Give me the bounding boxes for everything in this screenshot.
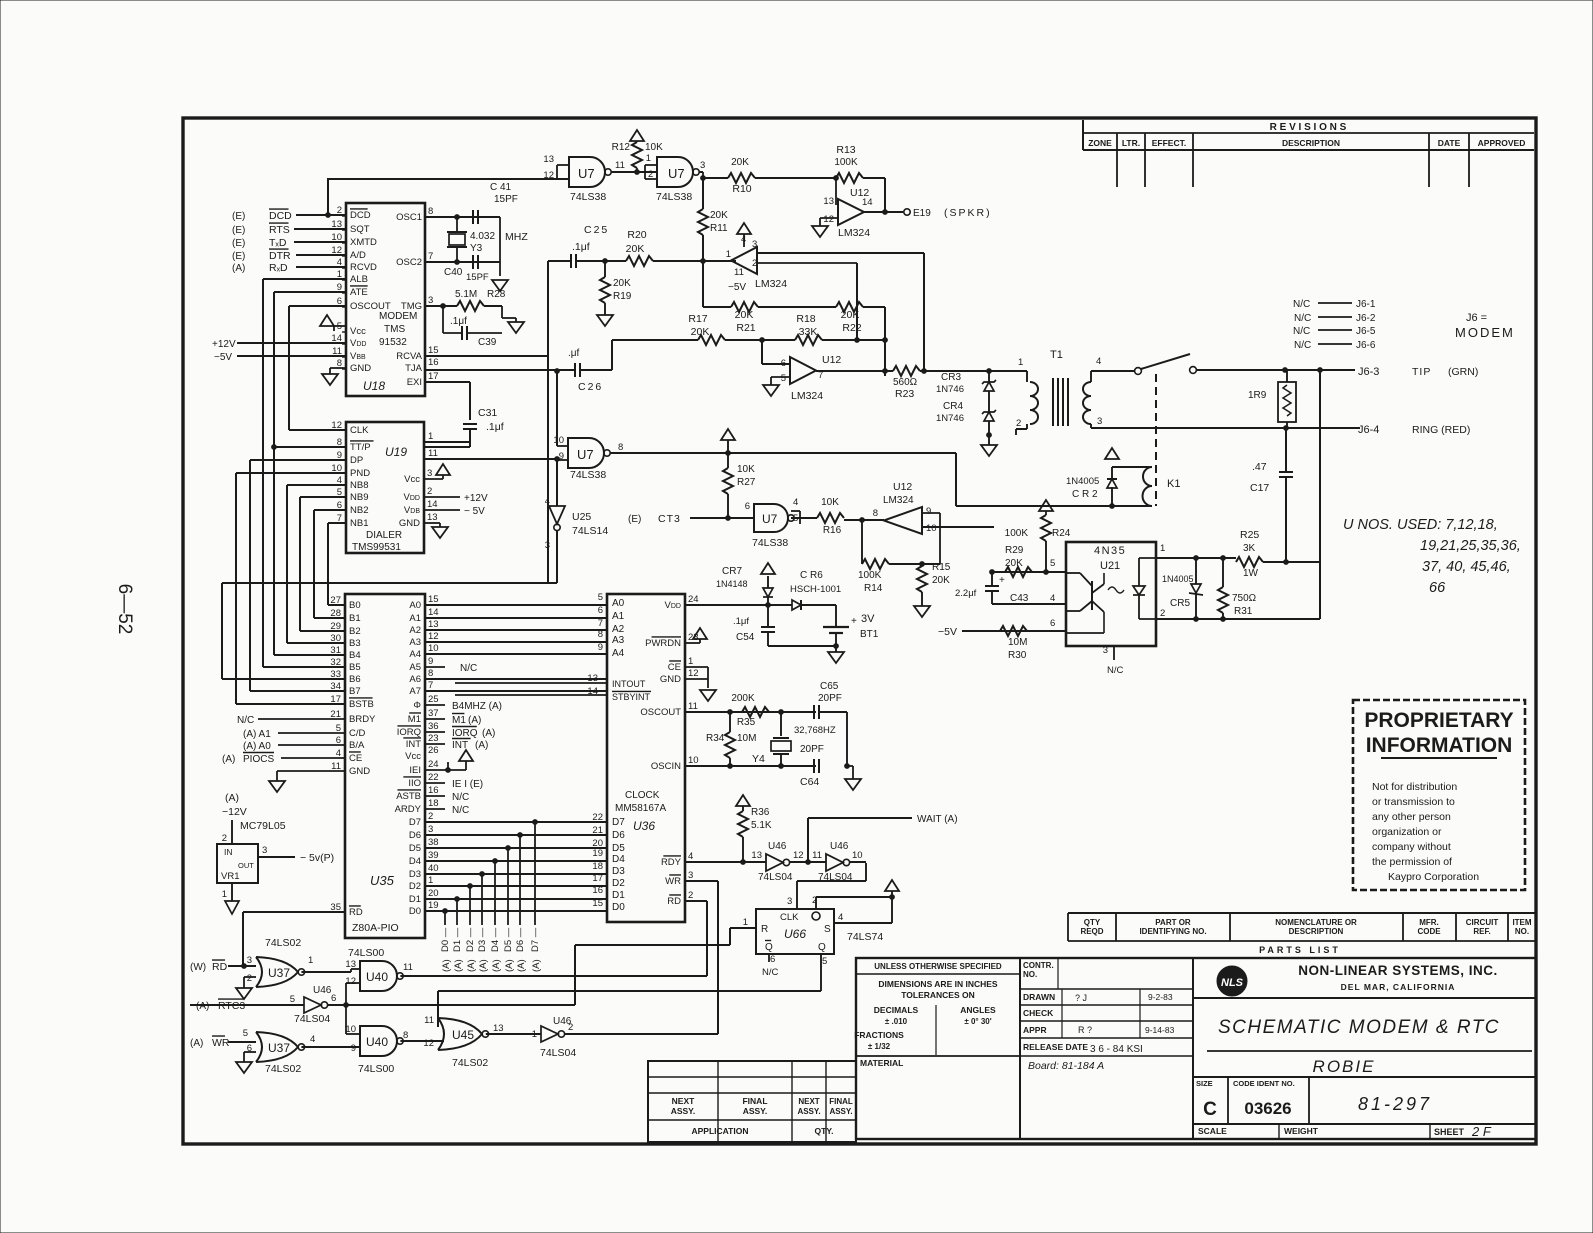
- svg-text:−5V: −5V: [214, 352, 232, 363]
- svg-text:R13: R13: [836, 144, 855, 156]
- svg-text:(A): (A): [475, 740, 488, 751]
- U19 pin1 wire from C31: [424, 442, 470, 447]
- svg-text:R29: R29: [1005, 545, 1024, 556]
- svg-text:MC79L05: MC79L05: [240, 820, 286, 832]
- U19 GND ground: [424, 523, 448, 538]
- svg-text:NB2: NB2: [350, 505, 368, 516]
- svg-text:U37: U37: [268, 1041, 290, 1055]
- capacitor C31 .1uf: [425, 407, 504, 447]
- svg-text:9: 9: [351, 1043, 356, 1054]
- svg-text:28: 28: [330, 608, 341, 619]
- svg-text:1N746: 1N746: [936, 413, 964, 424]
- svg-text:B/A: B/A: [349, 740, 365, 751]
- inverter U46c 74LS04: [190, 985, 346, 1025]
- inverter U46a 74LS04: [751, 841, 826, 883]
- wire TJA to C26: [425, 369, 575, 371]
- svg-text:15: 15: [428, 594, 439, 605]
- svg-text:(A): (A): [482, 728, 495, 739]
- NAND U7a 74LS38: [328, 154, 657, 203]
- svg-text:INT: INT: [406, 739, 422, 750]
- svg-text:.1μf: .1μf: [486, 421, 504, 433]
- svg-text:(A): (A): [466, 959, 477, 972]
- svg-text:U66: U66: [784, 927, 806, 941]
- svg-text:3: 3: [428, 295, 433, 306]
- svg-text:D3: D3: [612, 866, 625, 877]
- svg-text:NB8: NB8: [350, 480, 368, 491]
- svg-text:3: 3: [247, 955, 252, 966]
- svg-text:14: 14: [428, 607, 439, 618]
- svg-text:E19: E19: [913, 208, 931, 219]
- svg-text:3: 3: [752, 239, 757, 250]
- svg-text:1: 1: [726, 249, 731, 260]
- svg-text:C40: C40: [444, 267, 463, 278]
- svg-text:J6-2: J6-2: [1356, 313, 1376, 324]
- IC U19 TMS99531 dialer: [331, 420, 437, 553]
- svg-text:QTY: QTY: [1084, 918, 1101, 927]
- svg-text:REF.: REF.: [1473, 927, 1490, 936]
- svg-text:20PF: 20PF: [818, 693, 842, 704]
- svg-text:R28: R28: [487, 289, 506, 300]
- svg-text:R11: R11: [710, 223, 728, 234]
- svg-text:1: 1: [688, 656, 693, 667]
- dashed relay link: [1155, 374, 1157, 506]
- svg-text:14: 14: [427, 499, 438, 510]
- svg-text:DIALER: DIALER: [366, 530, 402, 541]
- svg-text:R36: R36: [751, 807, 770, 818]
- svg-text:5.1K: 5.1K: [751, 820, 772, 831]
- svg-text:20K: 20K: [613, 278, 631, 289]
- svg-text:D4: D4: [409, 856, 421, 867]
- svg-text:(A): (A): [190, 1038, 203, 1049]
- svg-text:ANGLES: ANGLES: [960, 1005, 996, 1015]
- U21 drive network R24 R29 C43 R30: [938, 500, 1071, 661]
- svg-text:C54: C54: [736, 632, 755, 643]
- svg-text:9-14-83: 9-14-83: [1145, 1025, 1175, 1035]
- NAND U40b 74LS00: [345, 1005, 444, 1075]
- svg-text:10: 10: [553, 435, 564, 446]
- svg-text:B6: B6: [349, 674, 361, 685]
- IC U18 TMS99532 modem: [331, 203, 438, 396]
- svg-text:20K: 20K: [735, 309, 754, 321]
- svg-text:N/C: N/C: [460, 663, 477, 674]
- svg-text:B7: B7: [349, 686, 361, 697]
- svg-text:11: 11: [403, 962, 413, 973]
- svg-text:5: 5: [781, 373, 786, 384]
- svg-text:Not for distribution: Not for distribution: [1372, 781, 1457, 793]
- svg-text:B0: B0: [349, 600, 361, 611]
- svg-text:CR3: CR3: [941, 372, 961, 383]
- svg-text:MFR.: MFR.: [1419, 918, 1439, 927]
- svg-text:R23: R23: [895, 388, 914, 400]
- svg-text:company without: company without: [1372, 841, 1451, 853]
- svg-text:DRAWN: DRAWN: [1023, 992, 1055, 1002]
- svg-text:R19: R19: [613, 291, 632, 302]
- drawing frame border: [183, 118, 1536, 1144]
- svg-text:20PF: 20PF: [800, 744, 824, 755]
- svg-text:74LS38: 74LS38: [570, 469, 606, 481]
- svg-text:APPR: APPR: [1023, 1025, 1047, 1035]
- svg-text:7: 7: [598, 618, 603, 629]
- svg-text:A1: A1: [612, 611, 625, 622]
- svg-text:32: 32: [330, 657, 341, 668]
- svg-text:− 5V: − 5V: [464, 506, 485, 517]
- svg-text:4: 4: [310, 1034, 315, 1045]
- svg-text:R30: R30: [1008, 650, 1027, 661]
- op-amp U12d with R14 R15 R16: [817, 481, 994, 617]
- svg-text:EXI: EXI: [407, 377, 422, 388]
- svg-text:GND: GND: [350, 363, 371, 374]
- relay K1 with CR2: [930, 448, 1180, 508]
- svg-text:C65: C65: [820, 681, 839, 692]
- svg-text:9: 9: [428, 656, 433, 667]
- svg-text:A4: A4: [612, 648, 625, 659]
- svg-text:91532: 91532: [379, 337, 407, 348]
- parts list header: [1068, 913, 1536, 958]
- svg-text:DESCRIPTION: DESCRIPTION: [1289, 927, 1344, 936]
- svg-text:4: 4: [1096, 356, 1101, 367]
- svg-text:9-2-83: 9-2-83: [1148, 992, 1173, 1002]
- svg-text:5: 5: [290, 994, 295, 1005]
- op-amp U12c: [762, 340, 887, 402]
- svg-text:A5: A5: [409, 662, 421, 673]
- svg-text:T1: T1: [1050, 349, 1063, 361]
- svg-text:(E): (E): [232, 238, 245, 249]
- svg-text:D2: D2: [612, 878, 625, 889]
- svg-text:D2: D2: [409, 881, 421, 892]
- svg-text:3: 3: [1097, 416, 1102, 427]
- svg-text:(W): (W): [190, 962, 206, 973]
- svg-text:CT3: CT3: [658, 513, 681, 525]
- svg-text:(A): (A): [478, 959, 489, 972]
- svg-text:15: 15: [592, 898, 603, 909]
- svg-text:Board: 81-184 A: Board: 81-184 A: [1028, 1060, 1104, 1072]
- svg-text:LM324: LM324: [755, 278, 787, 290]
- svg-text:OUT: OUT: [238, 861, 254, 870]
- svg-text:19,21,25,35,36,: 19,21,25,35,36,: [1420, 538, 1521, 554]
- svg-text:B3: B3: [349, 638, 361, 649]
- svg-text:D7 —: D7 —: [530, 927, 541, 952]
- svg-text:CODE: CODE: [1417, 927, 1441, 936]
- U18 Vcc +5 triangle: [320, 315, 346, 331]
- svg-text:CE: CE: [668, 662, 681, 673]
- svg-text:CR4: CR4: [943, 401, 963, 412]
- svg-text:N/C: N/C: [1294, 313, 1311, 324]
- svg-text:IEI: IEI: [409, 765, 421, 776]
- svg-text:25: 25: [428, 694, 439, 705]
- regulator VR1 MC79L05: [217, 792, 334, 914]
- svg-text:2: 2: [688, 890, 693, 901]
- svg-text:WR: WR: [665, 876, 681, 887]
- NOR U37a 74LS02: [190, 937, 351, 999]
- svg-text:11: 11: [428, 448, 438, 459]
- svg-text:2: 2: [247, 973, 252, 984]
- svg-text:11: 11: [812, 850, 822, 861]
- svg-text:74LS14: 74LS14: [572, 525, 608, 537]
- svg-text:B4MHZ (A): B4MHZ (A): [452, 701, 502, 712]
- svg-text:74LS04: 74LS04: [758, 872, 793, 883]
- svg-text:U35: U35: [370, 873, 395, 888]
- svg-text:100K: 100K: [858, 570, 882, 581]
- svg-text:S: S: [824, 924, 831, 935]
- svg-text:DEL MAR, CALIFORNIA: DEL MAR, CALIFORNIA: [1341, 982, 1456, 992]
- svg-text:3: 3: [688, 870, 693, 881]
- svg-text:INFORMATION: INFORMATION: [1366, 734, 1513, 757]
- svg-text:APPROVED: APPROVED: [1478, 138, 1526, 148]
- svg-text:OSCIN: OSCIN: [651, 761, 681, 772]
- svg-text:DIMENSIONS ARE IN INCHES: DIMENSIONS ARE IN INCHES: [878, 979, 998, 989]
- svg-text:13: 13: [751, 850, 762, 861]
- R28 5.1M and C39 on TMG: [425, 289, 524, 348]
- svg-text:ASSY.: ASSY.: [797, 1107, 820, 1116]
- svg-text:+: +: [999, 575, 1005, 586]
- svg-text:RTC3: RTC3: [218, 1000, 245, 1012]
- svg-text:31: 31: [330, 645, 341, 656]
- svg-text:74LS00: 74LS00: [358, 1063, 394, 1075]
- svg-text:6: 6: [781, 358, 786, 369]
- svg-text:R27: R27: [737, 477, 756, 488]
- svg-text:SCALE: SCALE: [1198, 1126, 1227, 1136]
- svg-text:NOMENCLATURE OR: NOMENCLATURE OR: [1275, 918, 1357, 927]
- svg-text:OSC1: OSC1: [396, 212, 422, 223]
- svg-text:1: 1: [428, 431, 433, 442]
- svg-text:(A): (A): [491, 959, 502, 972]
- svg-text:32,768HZ: 32,768HZ: [794, 725, 836, 736]
- svg-text:VR1: VR1: [221, 871, 239, 882]
- svg-text:WR: WR: [212, 1037, 230, 1049]
- U66 clock set Q wires: [797, 863, 899, 991]
- svg-text:6: 6: [598, 605, 603, 616]
- svg-text:LM324: LM324: [838, 227, 870, 239]
- svg-text:2.2μf: 2.2μf: [955, 588, 977, 599]
- R36 5.1K on RDY: [685, 795, 772, 864]
- svg-text:8: 8: [403, 1030, 408, 1041]
- op-amp U12b: [703, 223, 924, 371]
- svg-text:12: 12: [793, 850, 804, 861]
- svg-text:C26: C26: [578, 381, 603, 393]
- svg-text:3: 3: [427, 468, 432, 479]
- wire RCVA stub: [425, 355, 548, 357]
- svg-text:N/C: N/C: [1107, 665, 1124, 676]
- svg-text:PWRDN: PWRDN: [645, 638, 681, 649]
- svg-text:(SPKR): (SPKR): [944, 207, 992, 219]
- svg-text:9: 9: [559, 451, 564, 462]
- R10 R11 R13 network: [698, 144, 885, 261]
- svg-text:U46: U46: [313, 985, 332, 996]
- svg-text:RₓD: RₓD: [269, 262, 288, 274]
- svg-text:.1μf: .1μf: [450, 316, 467, 327]
- svg-text:A2: A2: [612, 624, 625, 635]
- capacitor C26: [568, 340, 612, 393]
- svg-text:DECIMALS: DECIMALS: [874, 1005, 919, 1015]
- svg-text:NON-LINEAR SYSTEMS, INC.: NON-LINEAR SYSTEMS, INC.: [1298, 963, 1498, 978]
- J6 N/C pins and MODEM label: [1293, 299, 1515, 351]
- svg-text:MM58167A: MM58167A: [615, 803, 666, 814]
- svg-text:PND: PND: [350, 468, 370, 479]
- svg-text:STBYINT: STBYINT: [612, 692, 651, 702]
- gain network R17 R21 R18 R22: [612, 261, 887, 376]
- svg-text:Vcc: Vcc: [405, 751, 421, 762]
- crystal Y3 4.032MHZ with C40 C41: [425, 182, 528, 291]
- left bus wires U18-U19 to U35: [222, 279, 346, 704]
- svg-text:−5V: −5V: [938, 626, 957, 638]
- svg-text:20K: 20K: [932, 575, 950, 586]
- svg-text:1W: 1W: [1243, 568, 1259, 579]
- svg-text:J6-5: J6-5: [1356, 326, 1376, 337]
- svg-text:TₓD: TₓD: [269, 237, 287, 249]
- svg-text:DESCRIPTION: DESCRIPTION: [1282, 138, 1340, 148]
- svg-text:81-297: 81-297: [1358, 1094, 1432, 1114]
- svg-text:2: 2: [648, 169, 653, 180]
- svg-text:1: 1: [646, 153, 651, 164]
- svg-text:M1: M1: [452, 715, 466, 726]
- svg-text:RTS: RTS: [269, 224, 290, 236]
- svg-text:NB1: NB1: [350, 518, 368, 529]
- svg-text:10K: 10K: [821, 497, 839, 508]
- svg-text:D4: D4: [612, 854, 625, 865]
- svg-text:D4 —: D4 —: [490, 927, 501, 952]
- svg-text:D6: D6: [612, 830, 625, 841]
- svg-text:15PF: 15PF: [466, 272, 489, 283]
- svg-text:Vcc: Vcc: [404, 474, 420, 485]
- svg-text:C: C: [1203, 1099, 1217, 1120]
- svg-text:A6: A6: [409, 674, 421, 685]
- svg-text:U21: U21: [1100, 560, 1120, 572]
- svg-text:R21: R21: [736, 322, 755, 334]
- svg-text:U19: U19: [385, 445, 407, 459]
- svg-text:FRACTIONS: FRACTIONS: [854, 1030, 904, 1040]
- svg-text:D3: D3: [409, 869, 421, 880]
- svg-text:13: 13: [493, 1023, 504, 1034]
- svg-text:D5 —: D5 —: [503, 927, 514, 952]
- svg-text:U25: U25: [572, 511, 591, 523]
- svg-text:CLK: CLK: [780, 912, 799, 923]
- svg-text:Z80A-PIO: Z80A-PIO: [352, 922, 399, 934]
- svg-text:20K: 20K: [626, 243, 645, 255]
- svg-text:U7: U7: [762, 512, 778, 526]
- svg-text:+12V: +12V: [464, 493, 488, 504]
- svg-text:4.032: 4.032: [470, 231, 495, 242]
- svg-text:6: 6: [770, 954, 775, 965]
- svg-text:C31: C31: [478, 407, 497, 419]
- svg-text:J6-4: J6-4: [1358, 424, 1379, 436]
- svg-text:74LS74: 74LS74: [847, 931, 883, 943]
- U36 CE GND stub: [685, 667, 716, 701]
- svg-text:4: 4: [1050, 593, 1055, 604]
- svg-text:2: 2: [752, 258, 757, 269]
- svg-text:4: 4: [838, 912, 843, 923]
- svg-text:22: 22: [428, 772, 439, 783]
- op-amp U12a with E19 SPKR: [812, 178, 992, 239]
- U19 +12V: [424, 493, 488, 504]
- svg-text:DCD: DCD: [350, 210, 371, 221]
- svg-text:.47: .47: [1252, 461, 1267, 473]
- svg-text:100K: 100K: [834, 157, 858, 168]
- svg-text:10: 10: [926, 523, 937, 534]
- svg-text:4: 4: [688, 851, 693, 862]
- svg-text:(E): (E): [232, 251, 245, 262]
- svg-text:UNLESS OTHERWISE SPECIFIED: UNLESS OTHERWISE SPECIFIED: [874, 962, 1002, 971]
- svg-text:D0: D0: [409, 906, 421, 917]
- IC U35 Z80A-PIO: [330, 594, 438, 938]
- svg-text:PART OR: PART OR: [1155, 918, 1191, 927]
- svg-text:27: 27: [330, 595, 341, 606]
- svg-text:XMTD: XMTD: [350, 237, 377, 248]
- svg-text:NO.: NO.: [1023, 970, 1037, 979]
- svg-text:(A): (A): [441, 959, 452, 972]
- NOR U45 74LS02: [423, 1015, 541, 1069]
- svg-text:DCD: DCD: [269, 210, 292, 222]
- svg-text:N/C: N/C: [452, 792, 469, 803]
- svg-text:R24: R24: [1052, 528, 1071, 539]
- svg-text:TT/P: TT/P: [350, 442, 371, 453]
- svg-text:M1: M1: [408, 714, 421, 725]
- svg-text:19: 19: [428, 900, 439, 911]
- svg-text:CLK: CLK: [350, 425, 369, 436]
- svg-text:REQD: REQD: [1080, 927, 1103, 936]
- svg-text:(A) A0: (A) A0: [243, 741, 271, 752]
- svg-text:33: 33: [330, 669, 341, 680]
- proprietary information box: [1353, 700, 1525, 890]
- svg-text:RDY: RDY: [661, 857, 682, 868]
- title block: [854, 958, 1536, 1139]
- svg-text:2: 2: [1016, 418, 1021, 429]
- svg-text:22: 22: [592, 812, 603, 823]
- svg-text:± .010: ± .010: [885, 1017, 908, 1026]
- oscillator Y4 32.768kHz R34 R35 C64 C65: [685, 681, 861, 790]
- svg-text:R E V I S I O N S: R E V I S I O N S: [1270, 122, 1347, 133]
- svg-text:5: 5: [1050, 558, 1055, 569]
- svg-text:C25: C25: [584, 224, 609, 236]
- svg-text:1: 1: [743, 917, 748, 928]
- svg-text:9: 9: [598, 642, 603, 653]
- svg-text:± 1/32: ± 1/32: [868, 1042, 891, 1051]
- svg-text:N/C: N/C: [1294, 340, 1311, 351]
- svg-text:3: 3: [1103, 645, 1108, 656]
- inverter U46d 74LS04: [532, 1016, 718, 1059]
- svg-text:16: 16: [592, 885, 603, 896]
- svg-text:(A) A1: (A) A1: [243, 729, 271, 740]
- svg-text:FINAL: FINAL: [742, 1096, 767, 1106]
- svg-text:3: 3: [787, 896, 792, 907]
- svg-text:D0: D0: [612, 902, 625, 913]
- svg-text:5: 5: [822, 956, 827, 967]
- svg-text:C17: C17: [1250, 482, 1269, 494]
- svg-text:N/C: N/C: [1293, 299, 1310, 310]
- svg-text:R34: R34: [706, 733, 725, 744]
- svg-text:6—52: 6—52: [114, 584, 135, 635]
- svg-text:C64: C64: [800, 776, 819, 788]
- svg-text:15PF: 15PF: [494, 194, 518, 205]
- svg-text:10: 10: [428, 643, 439, 654]
- svg-text:2: 2: [428, 811, 433, 822]
- svg-text:1N4005: 1N4005: [1162, 574, 1194, 584]
- svg-text:66: 66: [1429, 580, 1446, 596]
- C25 R20 R19 input network: [548, 224, 705, 583]
- svg-text:74LS02: 74LS02: [265, 1063, 301, 1075]
- svg-text:2: 2: [427, 486, 432, 497]
- R27 10K pullup: [721, 429, 756, 519]
- svg-text:10M: 10M: [1008, 637, 1027, 648]
- svg-text:(E): (E): [232, 211, 245, 222]
- U18 EXI to C31: [425, 382, 470, 420]
- svg-text:R15: R15: [932, 562, 951, 573]
- U NOS USED note: [1343, 517, 1521, 596]
- svg-text:C 41: C 41: [490, 182, 512, 193]
- svg-text:MODEM: MODEM: [1455, 325, 1515, 340]
- capacitor C17 .47: [1250, 428, 1293, 562]
- svg-text:A3: A3: [409, 637, 421, 648]
- svg-text:ASSY.: ASSY.: [671, 1106, 696, 1116]
